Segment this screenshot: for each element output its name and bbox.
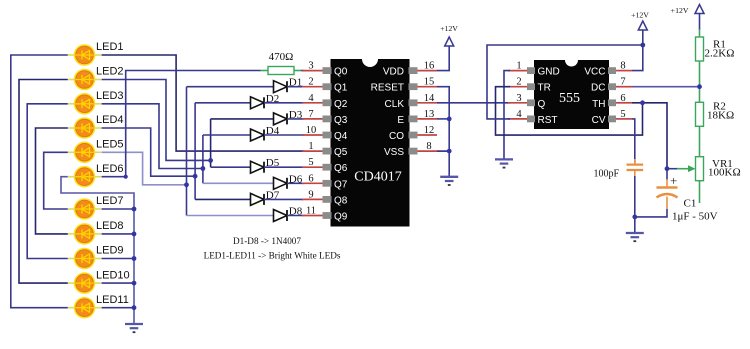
wire 470 ohm to pin 3 <box>301 70 304 72</box>
wire D4 cathode to CD4017 pin <box>264 134 304 136</box>
pin 2 Q1 of U1 <box>302 77 348 94</box>
svg-text:LED2: LED2 <box>96 66 124 78</box>
+12V supply for resistor chain <box>671 5 704 16</box>
svg-text:Q6: Q6 <box>334 163 348 174</box>
wire ground rail for LED7-LED11 <box>133 209 135 324</box>
pin 11 Q9 of U1 <box>302 206 348 223</box>
wire LED7 right terminal to ground rail <box>102 208 135 210</box>
svg-text:C1: C1 <box>684 198 697 210</box>
wire LED6 right up to 470 ohm resistor / Q0 net <box>102 71 261 177</box>
svg-text:+12V: +12V <box>440 24 458 33</box>
svg-text:CV: CV <box>592 115 606 126</box>
svg-text:3: 3 <box>516 93 521 104</box>
svg-text:Q2: Q2 <box>334 99 348 110</box>
op-amp U2 555 timer body <box>534 60 609 129</box>
svg-text:LED8: LED8 <box>96 220 124 232</box>
pin 16 VDD of U1 <box>383 61 437 78</box>
wire LED5 left terminal to LED7 left terminal <box>44 152 68 209</box>
svg-text:LED1-LED11 -> Bright White LED: LED1-LED11 -> Bright White LEDs <box>204 251 341 261</box>
svg-text:LED1: LED1 <box>96 41 124 53</box>
svg-text:D1-D8 -> 1N4007: D1-D8 -> 1N4007 <box>233 236 301 246</box>
svg-text:Q3: Q3 <box>334 115 348 126</box>
svg-text:E: E <box>397 115 404 126</box>
wire VSS pin 8 to ground net <box>437 150 449 152</box>
svg-text:1μF - 50V: 1μF - 50V <box>672 211 718 223</box>
junction LED9 on ground rail <box>132 256 137 261</box>
LED LED11 <box>68 294 129 319</box>
svg-text:16: 16 <box>424 61 435 72</box>
wire VDD pin 16 to +12V <box>437 46 449 71</box>
wire LED8 right terminal to ground rail <box>102 233 135 235</box>
svg-text:VDD: VDD <box>383 67 404 78</box>
pin 1 GND of U2 <box>508 61 560 78</box>
junction LED10 on ground rail <box>132 281 137 286</box>
svg-text:Q: Q <box>538 99 546 110</box>
svg-text:RST: RST <box>538 115 558 126</box>
pin 3 Q0 of U1 <box>302 61 348 78</box>
svg-text:TH: TH <box>592 99 605 110</box>
wire LED2 left terminal to LED10 left terminal <box>19 80 68 284</box>
wire to D1 anode <box>187 86 274 88</box>
svg-text:RESET: RESET <box>371 83 404 94</box>
wire LED6 left terminal down and right to LED7-11 ground rail <box>61 177 134 208</box>
wire D1 cathode to CD4017 pin <box>287 86 304 88</box>
svg-text:2.2KΩ: 2.2KΩ <box>705 48 735 60</box>
svg-text:6: 6 <box>620 93 625 104</box>
junction LED8 on ground rail <box>132 232 137 237</box>
wire R2 bottom to VR1 top <box>699 126 701 156</box>
svg-text:LED5: LED5 <box>96 139 124 151</box>
pin 10 Q4 of U1 <box>302 125 348 142</box>
wire LED3 right to D4/D6 net <box>102 104 203 169</box>
junction D2/D7 net with LED4 wire <box>193 174 198 179</box>
pin 7 Q3 of U1 <box>302 109 348 126</box>
svg-text:8: 8 <box>426 141 431 152</box>
pin 12 CO of U1 <box>389 125 437 142</box>
wire 470 ohm left lead <box>261 70 269 72</box>
svg-text:7: 7 <box>620 77 625 88</box>
wire LED9 right terminal to ground rail <box>102 258 135 260</box>
LED LED6 <box>68 163 124 188</box>
wire CLK pin 14 to 555 output Q <box>437 102 510 104</box>
junction LED6 wire on Q0 net <box>124 175 128 179</box>
svg-text:CD4017: CD4017 <box>354 170 401 185</box>
wire D5 cathode to CD4017 pin <box>264 166 304 168</box>
svg-text:7: 7 <box>308 109 313 120</box>
wire RESET pin 15 down to ground and VSS <box>437 87 449 177</box>
svg-text:Q0: Q0 <box>334 67 348 78</box>
wire C1 top lead upper <box>666 169 668 180</box>
wire net D1-D8 vertical <box>186 87 188 216</box>
svg-text:4: 4 <box>516 109 522 120</box>
resistor 470 ohm <box>268 67 294 75</box>
LED LED7 <box>68 195 124 220</box>
LED LED9 <box>68 245 124 270</box>
wire net D4-D6 vertical <box>202 135 204 183</box>
wire 555 GND pin 1 to ground <box>504 71 510 160</box>
svg-text:2: 2 <box>308 77 313 88</box>
svg-text:10: 10 <box>306 125 317 136</box>
svg-text:9: 9 <box>308 189 313 200</box>
LED LED10 <box>68 269 130 294</box>
wire LED1 left terminal to LED11 left terminal <box>11 55 68 308</box>
svg-text:18KΩ: 18KΩ <box>707 110 734 122</box>
svg-text:555: 555 <box>559 91 580 106</box>
wire D7 cathode to CD4017 pin <box>264 198 304 200</box>
junction VSS pin on ground net <box>447 149 452 154</box>
svg-text:Q1: Q1 <box>334 83 348 94</box>
svg-text:+12V: +12V <box>671 6 689 15</box>
svg-text:LED6: LED6 <box>96 163 124 175</box>
wire to D3 anode <box>211 118 274 120</box>
pin 1 Q5 of U1 <box>302 141 348 158</box>
svg-text:100KΩ: 100KΩ <box>708 167 741 179</box>
svg-text:8: 8 <box>620 61 625 72</box>
wire LED4 right to D2/D7 net <box>102 128 196 176</box>
pin 9 Q8 of U1 <box>302 189 348 206</box>
svg-text:13: 13 <box>424 109 435 120</box>
pin 4 RST of U2 <box>508 109 558 126</box>
diode D8 1N4007 <box>274 206 303 222</box>
svg-text:TR: TR <box>538 83 551 94</box>
wire to D8 anode <box>187 215 274 217</box>
wire LED3 left terminal to LED9 left terminal <box>27 104 68 259</box>
svg-text:VSS: VSS <box>384 147 404 158</box>
junction DC pin net on R1/R2 rail <box>697 84 702 89</box>
svg-text:3: 3 <box>308 61 313 72</box>
wire LED2 right to D3/D5 net <box>102 80 211 161</box>
svg-text:+12V: +12V <box>631 11 649 20</box>
wire C1 bottom lead <box>666 197 668 210</box>
wire +12V arrow stem <box>699 13 701 30</box>
svg-text:Q5: Q5 <box>334 147 348 158</box>
pin 5 Q6 of U1 <box>302 157 348 174</box>
LED LED4 <box>68 114 124 139</box>
wire D3 cathode to CD4017 pin <box>287 118 304 120</box>
junction LED7 on ground rail <box>132 207 137 212</box>
svg-text:Q4: Q4 <box>334 131 348 142</box>
wire LED4 left terminal to LED8 left terminal <box>36 128 68 234</box>
ground for LED chain <box>125 324 143 332</box>
VR1 wiper arrow <box>668 165 696 172</box>
junction RST net on +12V wire <box>640 43 645 48</box>
pin 8 VSS of U1 <box>384 141 437 158</box>
svg-text:15: 15 <box>424 77 435 88</box>
diode D2 1N4007 <box>251 93 280 109</box>
svg-text:LED3: LED3 <box>96 90 124 102</box>
diode D6 1N4007 <box>274 173 303 189</box>
wire to D4 anode <box>203 134 251 136</box>
capacitor 100pF <box>593 159 643 179</box>
wire DC pin 7 to R1/R2 junction <box>632 86 699 88</box>
resistor R2 <box>696 102 704 126</box>
+12V supply for 555 <box>631 11 649 31</box>
pin 6 Q7 of U1 <box>302 173 348 190</box>
wire R1 bottom to R2 top <box>699 61 701 102</box>
svg-text:CO: CO <box>389 131 404 142</box>
wire C1 top lead <box>666 179 668 186</box>
wire D6 cathode to CD4017 pin <box>287 182 304 184</box>
wire to D6 anode <box>203 182 274 184</box>
pin 6 TH of U2 <box>592 93 632 110</box>
wire VCC pin 8 to +12V <box>632 30 643 71</box>
wire 470 ohm right lead <box>294 70 301 72</box>
svg-text:+: + <box>670 173 677 188</box>
pin 13 E of U1 <box>397 109 437 126</box>
svg-text:6: 6 <box>308 173 313 184</box>
junction TR net on TH wire <box>640 100 645 105</box>
diode D3 1N4007 <box>274 109 303 125</box>
wire net D2-D7 vertical <box>194 103 196 200</box>
svg-text:VCC: VCC <box>584 67 605 78</box>
node C1 top / VR1 wiper <box>665 166 670 171</box>
op-amp U1 CD4017 decade counter body <box>331 59 410 227</box>
svg-text:14: 14 <box>424 93 435 104</box>
pin 7 DC of U2 <box>591 77 632 94</box>
wire TR pin 2 around to TH net <box>496 87 643 135</box>
pin 5 CV of U2 <box>592 109 632 126</box>
svg-text:DC: DC <box>591 83 605 94</box>
LED LED3 <box>68 90 124 115</box>
wire net D3-D5 vertical <box>210 119 212 167</box>
+12V supply for CD4017 <box>440 24 458 46</box>
wire +12V to R1 top <box>699 29 701 37</box>
svg-text:Q8: Q8 <box>334 195 348 206</box>
svg-text:470Ω: 470Ω <box>269 51 294 63</box>
wire LED1 right to CD4017 pin 1 (Q5) <box>102 55 305 151</box>
ground for 555 pin 1 <box>495 159 513 167</box>
ground for CD4017 RESET/E/VSS <box>440 177 458 185</box>
pin 14 CLK of U1 <box>385 93 437 110</box>
wire to D7 anode <box>195 198 250 200</box>
wire D2 cathode to CD4017 pin <box>264 102 304 104</box>
junction D1/D8 net with LED5 wire <box>184 182 189 187</box>
pin 4 Q2 of U1 <box>302 93 348 110</box>
svg-text:100pF: 100pF <box>593 168 619 179</box>
svg-text:2: 2 <box>516 77 521 88</box>
wire LED10 right terminal to ground rail <box>102 282 135 284</box>
svg-text:4: 4 <box>308 93 314 104</box>
junction LED11 on ground rail <box>132 305 137 310</box>
junction E pin on ground net <box>447 117 452 122</box>
ground for 100pF and C1 <box>626 233 644 241</box>
svg-text:1: 1 <box>308 141 313 152</box>
junction 100pF / C1 ground node <box>632 215 637 220</box>
svg-text:LED10: LED10 <box>96 269 130 281</box>
svg-text:LED11: LED11 <box>96 294 129 306</box>
svg-text:12: 12 <box>424 125 435 136</box>
wire 100pF bottom to ground node <box>634 176 636 217</box>
wire E pin 13 to ground net <box>437 118 449 120</box>
potentiometer VR1 <box>696 157 704 181</box>
pin 8 VCC of U2 <box>584 61 632 78</box>
capacitor C1 1uF-50V electrolytic <box>657 173 718 223</box>
wire TH pin 6 right and down to C1/VR1 node <box>632 103 667 169</box>
svg-text:Q7: Q7 <box>334 179 348 190</box>
svg-text:LED7: LED7 <box>96 195 124 207</box>
svg-text:Q9: Q9 <box>334 212 348 223</box>
junction D4/D6 net with LED2 wire <box>201 166 206 171</box>
wire LED11 right terminal to ground rail <box>102 307 135 309</box>
svg-text:1: 1 <box>516 61 521 72</box>
junction D3/D5 net with LED3 wire <box>208 158 213 163</box>
diode D4 1N4007 <box>251 125 280 141</box>
wire D8 cathode to CD4017 pin <box>287 215 304 217</box>
svg-text:LED9: LED9 <box>96 245 124 257</box>
pin 15 RESET of U1 <box>371 77 437 94</box>
pin 2 TR of U2 <box>508 77 551 94</box>
LED LED8 <box>68 220 124 245</box>
wire C1 bottom to ground node <box>635 209 667 217</box>
resistor R1 <box>696 37 704 61</box>
diode D5 1N4007 <box>251 157 280 173</box>
LED LED2 <box>68 66 124 91</box>
svg-text:5: 5 <box>308 157 313 168</box>
wire ground node down <box>634 217 636 233</box>
LED LED1 <box>68 41 124 66</box>
wire CV pin 5 down to 100pF <box>632 119 635 164</box>
svg-text:CLK: CLK <box>385 99 405 110</box>
svg-text:GND: GND <box>538 67 560 78</box>
LED LED5 <box>68 139 124 164</box>
svg-text:11: 11 <box>306 206 316 217</box>
wire to D2 anode <box>195 102 250 104</box>
wire RST pin 4 up to +12V net <box>487 45 643 119</box>
svg-text:5: 5 <box>620 109 625 120</box>
wire VR1 bottom lead <box>699 181 701 203</box>
wire to D5 anode <box>211 166 251 168</box>
diode D1 1N4007 <box>274 77 303 93</box>
pin 3 Q of U2 <box>508 93 546 110</box>
wire LED5 right to D1/D8 net <box>102 152 187 185</box>
svg-text:LED4: LED4 <box>96 114 124 126</box>
diode D7 1N4007 <box>251 189 280 205</box>
